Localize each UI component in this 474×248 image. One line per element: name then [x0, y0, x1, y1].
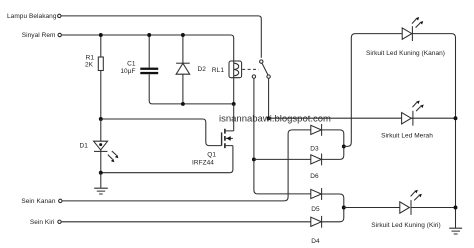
- wire Sein Kiri to D4 anode: [62, 221, 311, 223]
- wire kiri rail: [344, 207, 456, 209]
- svg-text:D4: D4: [311, 238, 320, 245]
- junction D3/D6 cathodes: [342, 144, 346, 148]
- wire Lampu Belakang to switch pivot: [61, 16, 261, 58]
- junction R1 top: [99, 33, 103, 37]
- switch pivot: [260, 60, 263, 63]
- diode D6: [311, 154, 322, 166]
- terminal Lampu Belakang: [58, 14, 61, 17]
- svg-text:Sirkuit Led Merah: Sirkuit Led Merah: [381, 133, 433, 140]
- switch contact left: [252, 75, 255, 78]
- svg-text:C1: C1: [127, 60, 136, 67]
- junction D2 bottom: [181, 102, 185, 106]
- svg-text:Sirkuit Led Kuning (Kiri): Sirkuit Led Kuning (Kiri): [371, 222, 441, 229]
- svg-text:D3: D3: [310, 145, 319, 152]
- svg-text:Sinyal Rem: Sinyal Rem: [22, 32, 56, 39]
- led kiri: [400, 190, 422, 215]
- svg-text:RL1: RL1: [212, 67, 224, 74]
- wire switch right contact down: [268, 79, 270, 119]
- switch arm: [262, 63, 268, 75]
- junction D6 tap: [252, 157, 256, 161]
- wire Sein Kanan to D3 anode: [62, 130, 310, 201]
- relay coil RL1: [229, 61, 242, 78]
- diode D4: [311, 216, 322, 228]
- junction D2 top: [181, 33, 185, 37]
- wire D5/D4 cathode join: [322, 194, 344, 222]
- svg-text:R1: R1: [86, 54, 95, 61]
- wire up to kanan loop: [344, 34, 402, 147]
- svg-text:2K: 2K: [85, 62, 94, 69]
- wire relay bottom to drain junction: [233, 78, 235, 104]
- svg-text:IRFZ44: IRFZ44: [192, 159, 214, 166]
- terminal Sein Kanan: [59, 199, 62, 202]
- junction merah right: [454, 116, 458, 120]
- resistor R1: [98, 35, 103, 119]
- led kanan: [402, 17, 423, 41]
- wire bottom rail C1-D2-RL1: [152, 103, 233, 105]
- svg-text:D1: D1: [80, 143, 89, 150]
- svg-text:Sirkuit Led Kuning (Kanan): Sirkuit Led Kuning (Kanan): [366, 50, 445, 57]
- wire source rail to D1/ground: [101, 172, 230, 174]
- wire kanan cathode to right rail: [412, 34, 455, 228]
- wire D3/D6 cathode join: [322, 130, 344, 160]
- junction relay/drain: [232, 102, 236, 106]
- wire D6 anode: [254, 158, 311, 160]
- diode D2: [176, 35, 190, 104]
- svg-text:D6: D6: [310, 173, 319, 180]
- switch contact right: [267, 75, 270, 78]
- dashed relay-switch link: [242, 68, 258, 70]
- junction gate/R1/D1: [99, 117, 103, 121]
- led D1: [94, 119, 119, 173]
- svg-text:Lampu Belakang: Lampu Belakang: [7, 13, 57, 20]
- svg-text:Q1: Q1: [207, 152, 216, 159]
- wire merah rail: [269, 117, 456, 119]
- svg-text:Sein Kanan: Sein Kanan: [21, 198, 55, 205]
- wire switch left contact down to D5 anode: [254, 79, 311, 194]
- junction merah tap: [267, 116, 271, 120]
- svg-text:10µF: 10µF: [120, 68, 135, 75]
- junction D5/D4 cathodes: [342, 206, 346, 210]
- terminal Sinyal Rem: [58, 33, 61, 36]
- diode D5: [311, 188, 322, 200]
- ground left: [94, 173, 108, 194]
- svg-text:D2: D2: [198, 66, 207, 73]
- led merah: [402, 101, 424, 126]
- ground right: [449, 228, 462, 234]
- terminal Sein Kiri: [58, 220, 61, 223]
- svg-text:isnannabawi.blogspot.com: isnannabawi.blogspot.com: [219, 113, 331, 124]
- wire gate from R1: [101, 119, 222, 146]
- wire Sinyal Rem rail: [62, 35, 234, 61]
- junction kiri right: [454, 206, 458, 210]
- svg-text:Sein Kiri: Sein Kiri: [30, 219, 55, 226]
- junction D1 bottom: [99, 171, 103, 175]
- svg-text:D5: D5: [311, 206, 320, 213]
- diode D3: [311, 124, 322, 136]
- capacitor C1: [140, 35, 158, 104]
- junction C1 top: [147, 33, 151, 37]
- mosfet Q1 IRFZ44: [222, 104, 234, 173]
